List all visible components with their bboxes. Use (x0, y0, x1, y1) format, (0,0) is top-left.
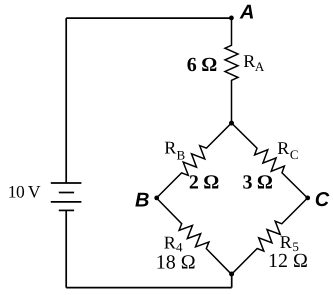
resistor RC 3 ohm (232, 123, 308, 198)
resistor RB 2 ohm (157, 123, 232, 198)
wire bottom stub to node D (231, 274, 233, 288)
svg-text:R: R (164, 232, 176, 252)
node B junction dot (154, 196, 159, 201)
resistor R4 18 ohm (157, 198, 232, 274)
svg-text:6 Ω: 6 Ω (187, 54, 217, 76)
wire left rail upper (65, 18, 67, 183)
wire left rail lower (65, 210, 67, 287)
svg-text:A: A (239, 1, 254, 23)
svg-text:3 Ω: 3 Ω (243, 172, 273, 194)
svg-text:B: B (177, 147, 186, 162)
svg-text:R: R (280, 232, 292, 252)
wire top rail (66, 17, 231, 19)
resistor RA 6 ohm (225, 18, 238, 123)
resistor R5 12 ohm (232, 198, 308, 274)
svg-text:R: R (277, 138, 289, 158)
svg-text:R: R (243, 51, 255, 71)
svg-text:C: C (315, 189, 330, 211)
svg-text:18 Ω: 18 Ω (156, 251, 196, 273)
svg-text:10 V: 10 V (8, 181, 41, 201)
node T junction dot (229, 121, 234, 126)
svg-text:R: R (164, 137, 176, 157)
battery V1 10 V (51, 183, 82, 210)
node D junction dot (229, 272, 234, 277)
svg-text:A: A (255, 59, 265, 74)
svg-text:12 Ω: 12 Ω (268, 250, 308, 272)
svg-text:2 Ω: 2 Ω (189, 171, 219, 193)
svg-text:C: C (290, 147, 299, 162)
wire bottom rail (66, 287, 232, 289)
svg-text:B: B (135, 189, 149, 211)
node A junction dot (229, 16, 234, 21)
node C junction dot (305, 196, 310, 201)
